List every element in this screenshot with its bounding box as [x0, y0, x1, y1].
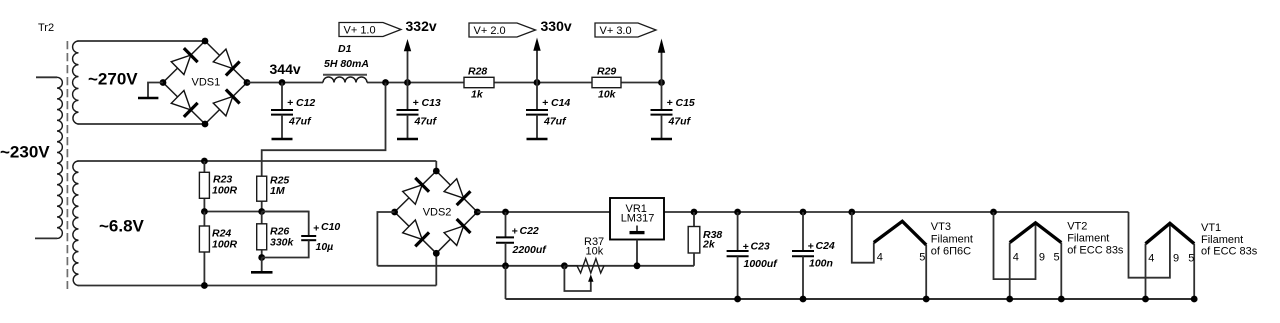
VR1 adj symbol: [636, 226, 638, 232]
svg-text:330v: 330v: [541, 18, 572, 34]
svg-text:VT3: VT3: [931, 221, 951, 233]
wire VT3 pin5 down: [925, 245, 927, 299]
node 344v: [279, 79, 286, 86]
node after choke: [382, 79, 389, 86]
wire VDS2 left to minus line: [377, 212, 394, 266]
svg-text:1000uf: 1000uf: [744, 258, 779, 270]
transformer core (dashed line): [66, 41, 68, 289]
svg-text:1M: 1M: [270, 185, 285, 197]
wire C22 bottom to return rail: [505, 266, 507, 299]
capacitor C23: [727, 212, 749, 299]
svg-text:100R: 100R: [212, 185, 238, 197]
node VDS1 right: [244, 79, 251, 86]
svg-text:+: +: [743, 241, 749, 253]
diode VDS1 lower-left: [171, 90, 198, 117]
svg-text:+: +: [808, 241, 814, 253]
diode VDS2 lower-right: [444, 219, 471, 246]
node 332v: [404, 79, 411, 86]
capacitor C10: [262, 212, 309, 236]
node VT3 pin5: [923, 296, 930, 303]
svg-text:R29: R29: [597, 66, 616, 78]
svg-text:344v: 344v: [270, 61, 301, 77]
svg-text:+: +: [542, 97, 548, 109]
svg-text:Filament: Filament: [1067, 233, 1109, 245]
node VDS1 left: [160, 79, 167, 86]
svg-text:~6.8V: ~6.8V: [99, 217, 145, 236]
resistor R38: [693, 212, 695, 227]
node VDS1 top: [202, 38, 209, 45]
bridge rectifier VDS2 outline: [395, 171, 478, 253]
diode VDS2 upper-left: [402, 178, 429, 205]
ground symbol below R26: [251, 271, 273, 274]
node R26 bottom: [258, 254, 265, 261]
wire VT3 feed: [852, 212, 874, 263]
svg-text:C14: C14: [551, 97, 570, 109]
node VT3 tap: [848, 209, 855, 216]
potentiometer R37 zigzag: [564, 259, 604, 273]
node divider mid left: [201, 208, 208, 215]
node R25 bottom: [258, 208, 265, 215]
node VDS2 bottom: [433, 250, 440, 257]
node R23 top: [201, 158, 208, 165]
wire VDS2 bottom to 6.8V bottom rail: [435, 253, 437, 285]
svg-text:V+ 2.0: V+ 2.0: [474, 25, 506, 37]
wire return rail: [506, 298, 1196, 300]
node R24 bottom: [201, 282, 208, 289]
transformer secondary 6.8V winding: [73, 161, 79, 286]
node VT1 pin5: [1191, 296, 1198, 303]
capacitor C24: [792, 212, 814, 299]
arrow up at 332v: [407, 50, 409, 83]
resistor R23: [203, 161, 205, 212]
node VT2 tap: [990, 209, 997, 216]
inductor D1: [323, 77, 367, 83]
node VDS2 top: [433, 168, 440, 175]
svg-text:V+ 3.0: V+ 3.0: [600, 25, 632, 37]
wire 6.8V top rail: [78, 160, 437, 162]
transformer primary winding: [57, 77, 62, 238]
wire minus/ADJ line: [377, 265, 694, 267]
svg-text:C24: C24: [816, 240, 835, 252]
svg-text:4: 4: [1148, 252, 1154, 264]
diode VDS1 lower-right: [213, 90, 240, 117]
svg-text:D1: D1: [338, 43, 352, 55]
resistor R24: [203, 212, 205, 286]
svg-text:of ECC 83s: of ECC 83s: [1067, 245, 1124, 257]
node R38 top: [691, 209, 698, 216]
svg-text:+: +: [667, 97, 673, 109]
node R37 left: [561, 262, 568, 269]
svg-text:+: +: [512, 226, 518, 238]
capacitor C12: [271, 83, 293, 140]
svg-text:5: 5: [919, 252, 925, 264]
svg-text:C13: C13: [422, 97, 441, 109]
node VDS2 left: [391, 209, 398, 216]
svg-text:of 6П6С: of 6П6С: [931, 246, 971, 258]
net tag V+ 3.0: [595, 23, 656, 37]
diode VDS1 upper-right: [213, 49, 240, 76]
wire 270V winding top to bridge: [78, 40, 206, 42]
svg-text:Filament: Filament: [931, 233, 973, 245]
svg-text:Filament: Filament: [1201, 234, 1243, 246]
svg-text:5H 80mA: 5H 80mA: [324, 58, 369, 70]
svg-text:2k: 2k: [702, 239, 716, 251]
node C24 bottom: [800, 296, 807, 303]
svg-text:100n: 100n: [809, 258, 833, 270]
svg-text:100R: 100R: [212, 238, 238, 250]
wire VT2 pin5 down: [1060, 243, 1062, 299]
diode VDS2 lower-left: [402, 219, 429, 246]
node C23 top: [734, 209, 741, 216]
svg-text:5: 5: [1054, 252, 1060, 264]
arrow up at 330v: [536, 50, 538, 83]
svg-text:C23: C23: [751, 241, 770, 253]
wire regulator output rail: [477, 211, 1128, 213]
svg-text:~230V: ~230V: [0, 143, 50, 162]
bridge rectifier VDS1 outline: [163, 41, 247, 124]
resistor R28: [464, 77, 494, 87]
net tag V+ 2.0: [469, 23, 536, 37]
transformer secondary 270V winding: [73, 41, 79, 124]
wire B+ rail VDS1 to choke: [247, 82, 323, 84]
potentiometer R37 wiper arrow: [588, 274, 593, 282]
node VT1 pin4: [1142, 296, 1149, 303]
resistor R25: [261, 176, 263, 211]
svg-text:9: 9: [1039, 252, 1045, 264]
resistor R26: [261, 212, 263, 258]
node adj: [634, 262, 641, 269]
resistor R29: [592, 77, 621, 87]
svg-text:LM317: LM317: [621, 213, 655, 225]
wire VR1 adj pin: [636, 240, 638, 266]
node VT2 pin5: [1058, 296, 1065, 303]
node C23 bottom: [734, 296, 741, 303]
svg-text:10µ: 10µ: [316, 241, 334, 253]
wire VT2 pin4 down: [1009, 243, 1011, 299]
svg-text:~270V: ~270V: [88, 70, 138, 89]
capacitor C13: [397, 83, 419, 140]
svg-text:10k: 10k: [598, 89, 617, 101]
wire primary bottom stub: [35, 237, 57, 239]
svg-text:+: +: [287, 97, 293, 109]
svg-text:C12: C12: [296, 97, 315, 109]
svg-text:47uf: 47uf: [414, 116, 438, 128]
filament VT1: [1146, 223, 1195, 243]
svg-text:+: +: [313, 223, 319, 235]
node 330v: [534, 79, 541, 86]
wire VDS1 left to ground: [148, 83, 163, 98]
svg-text:330k: 330k: [270, 237, 295, 249]
svg-text:C15: C15: [676, 97, 695, 109]
svg-text:VDS2: VDS2: [423, 207, 452, 219]
svg-text:47uf: 47uf: [668, 116, 692, 128]
svg-text:of ECC 83s: of ECC 83s: [1201, 246, 1258, 258]
svg-text:9: 9: [1173, 252, 1179, 264]
svg-text:332v: 332v: [406, 18, 437, 34]
node C22 bottom: [502, 262, 509, 269]
filament VT3: [874, 221, 926, 245]
svg-text:V+ 1.0: V+ 1.0: [344, 25, 376, 37]
potentiometer R37 wiper loop: [564, 266, 590, 291]
svg-text:C10: C10: [321, 221, 340, 233]
node C24 top: [800, 209, 807, 216]
capacitor C22: [496, 212, 514, 266]
capacitor C14: [526, 83, 548, 140]
filament VT2: [1010, 223, 1062, 243]
capacitor C15: [651, 83, 673, 140]
regulator VR1 box: [610, 198, 664, 240]
svg-text:C22: C22: [520, 225, 539, 237]
svg-text:4: 4: [877, 252, 883, 264]
node V+3.0: [658, 79, 665, 86]
wire VT1 feed to pin9: [1129, 212, 1170, 278]
svg-text:4: 4: [1013, 252, 1019, 264]
node VDS2 right: [474, 209, 481, 216]
svg-text:10k: 10k: [586, 245, 604, 257]
wire VT1 pin4 down: [1145, 244, 1147, 299]
svg-text:VT1: VT1: [1201, 222, 1221, 234]
svg-text:47uf: 47uf: [288, 116, 312, 128]
diode VDS2 upper-right: [444, 178, 471, 205]
svg-text:47uf: 47uf: [543, 116, 567, 128]
svg-text:VT2: VT2: [1067, 220, 1087, 232]
svg-text:2200uf: 2200uf: [512, 244, 548, 256]
net tag V+ 1.0: [339, 23, 401, 37]
svg-text:+: +: [413, 97, 419, 109]
node VT2 pin4: [1006, 296, 1013, 303]
wire B+ rail choke to V+3.0: [367, 82, 662, 84]
wire 270V winding bottom to bridge: [78, 123, 206, 125]
wire 6.8V top rail down to VDS2 top: [435, 161, 437, 171]
wire B+ feed to R25 (from choke node): [262, 83, 386, 177]
wire divider mid: [204, 211, 308, 213]
wire 6.8V bottom rail: [78, 285, 437, 287]
svg-text:VDS1: VDS1: [192, 77, 221, 89]
svg-text:1k: 1k: [471, 89, 484, 101]
wire VT2 feed to pin9: [994, 212, 1036, 279]
wire VT1 pin5 down: [1193, 244, 1195, 299]
node VDS1 bottom: [202, 121, 209, 128]
arrow up at V+3.0: [661, 52, 663, 83]
wire primary top stub: [36, 76, 57, 78]
svg-text:R28: R28: [468, 66, 487, 78]
diode VDS1 upper-left: [171, 48, 198, 75]
svg-text:5: 5: [1188, 252, 1194, 264]
wire to ground below R26: [261, 258, 263, 272]
ground symbol at VDS1: [138, 97, 158, 100]
node C22 top: [502, 209, 509, 216]
svg-text:Tr2: Tr2: [38, 22, 54, 34]
